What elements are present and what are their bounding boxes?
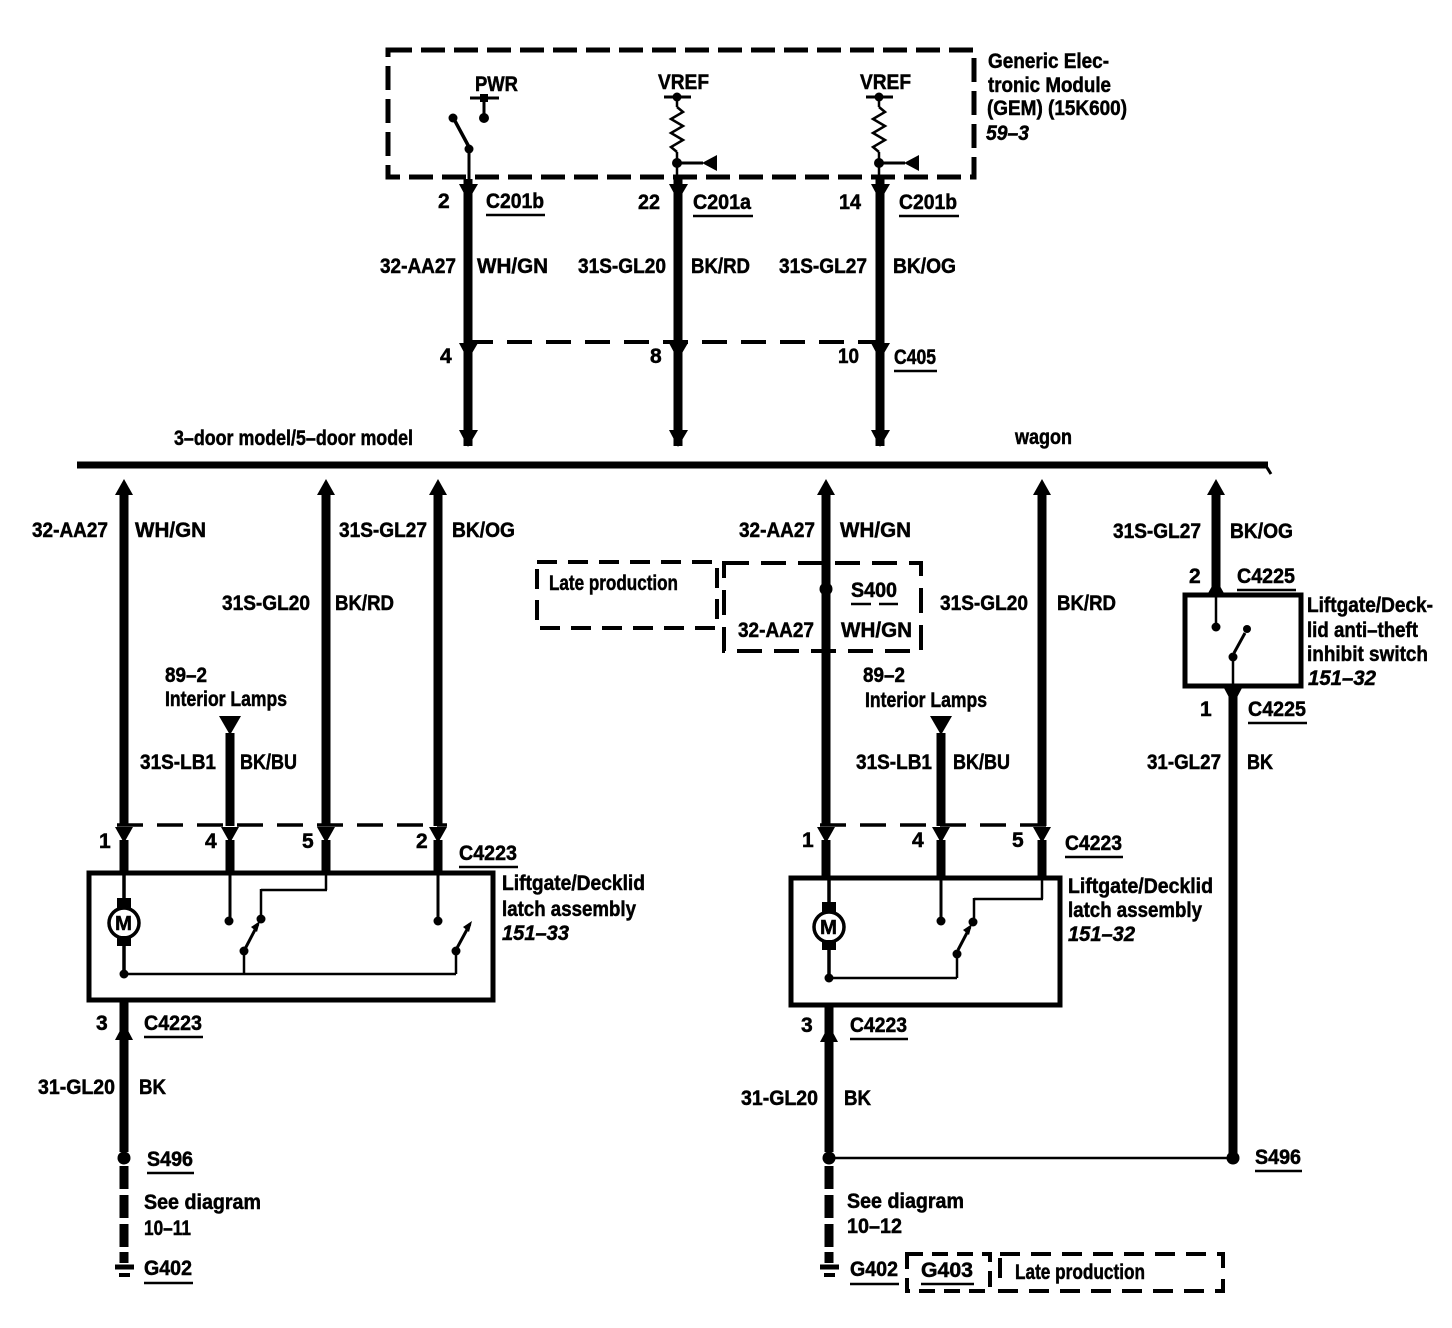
svg-text:151–33: 151–33	[502, 922, 569, 945]
wire 32-AA27 right drop from bus	[817, 479, 835, 826]
wire 31S-GL27 right drop from bus to switch	[1207, 479, 1225, 595]
splice S496 right network	[823, 1146, 1303, 1171]
wire 31S-GL27 from GEM pin 14 down to C405 and bus	[871, 179, 890, 447]
svg-text:BK/BU: BK/BU	[240, 751, 297, 774]
connector C4223 right dashed row	[802, 825, 1123, 857]
wire 31-GL27 from switch pin 1 down	[1224, 688, 1242, 1155]
svg-text:89–2: 89–2	[165, 664, 207, 687]
svg-text:C4223: C4223	[850, 1014, 907, 1037]
svg-text:151–32: 151–32	[1068, 923, 1135, 946]
label 31S-GL27 BK/OG right	[1113, 520, 1293, 543]
svg-text:32-AA27: 32-AA27	[32, 519, 108, 542]
svg-text:10: 10	[838, 345, 859, 368]
svg-text:Liftgate/Deck-: Liftgate/Deck-	[1307, 594, 1433, 617]
node pin 4 contact right	[937, 880, 946, 926]
wire stubs into right latch box	[826, 840, 1042, 880]
switch latch ajar right	[953, 880, 1044, 978]
label see diagram left	[144, 1191, 261, 1240]
label 31S-GL20 BK/RD right	[940, 592, 1116, 615]
wire 32-AA27 from GEM pin 2 down to C405 and bus	[459, 179, 478, 447]
label anti-theft switch name	[1307, 594, 1433, 690]
svg-text:59–3: 59–3	[986, 122, 1029, 145]
svg-text:1: 1	[1200, 698, 1212, 721]
svg-text:S496: S496	[147, 1148, 193, 1171]
note dashed box Late production bottom	[1000, 1254, 1223, 1291]
connector C4225 pin 1 labels	[1200, 698, 1307, 723]
svg-text:2: 2	[1189, 565, 1201, 588]
label 31S-LB1 BK/BU right	[856, 751, 1010, 774]
label GEM module name	[986, 50, 1127, 145]
svg-text:BK: BK	[1247, 751, 1273, 774]
label see diagram right	[847, 1190, 964, 1238]
svg-text:C4223: C4223	[1065, 832, 1122, 855]
switch inside GEM on pin 2	[449, 114, 474, 180]
svg-text:4: 4	[912, 829, 924, 852]
ground G402 right	[820, 1252, 899, 1284]
wire pin 3 exit left	[115, 1000, 133, 1152]
note dashed box Late production middle	[537, 562, 717, 628]
svg-text:BK/RD: BK/RD	[691, 255, 750, 278]
label latch assembly right	[1068, 875, 1213, 946]
svg-text:inhibit switch: inhibit switch	[1307, 643, 1428, 666]
svg-text:BK/RD: BK/RD	[335, 592, 394, 615]
svg-text:G402: G402	[144, 1257, 192, 1280]
svg-text:Interior Lamps: Interior Lamps	[865, 689, 987, 712]
svg-text:WH/GN: WH/GN	[840, 519, 911, 542]
svg-text:Interior Lamps: Interior Lamps	[165, 688, 287, 711]
label wire names top row	[380, 255, 956, 278]
component liftgate latch assembly box left	[89, 873, 493, 1000]
svg-text:151–32: 151–32	[1308, 667, 1376, 690]
svg-text:3–door model/5–door model: 3–door model/5–door model	[174, 427, 413, 450]
wire stubs into left latch box	[124, 840, 438, 875]
svg-text:Liftgate/Decklid: Liftgate/Decklid	[502, 872, 645, 895]
switch latch release left	[434, 875, 473, 974]
wire internal return bus left	[124, 973, 456, 976]
svg-text:32-AA27: 32-AA27	[380, 255, 456, 278]
motor M2 right	[814, 880, 844, 978]
svg-text:31S-GL20: 31S-GL20	[222, 592, 310, 615]
label 31-GL20 BK right	[741, 1087, 871, 1110]
bus wire horizontal	[77, 462, 1268, 469]
svg-text:BK/OG: BK/OG	[893, 255, 956, 278]
svg-text:31S-GL27: 31S-GL27	[1113, 520, 1201, 543]
svg-text:C201b: C201b	[899, 191, 957, 214]
switch latch ajar left	[240, 875, 328, 974]
svg-text:tronic Module: tronic Module	[988, 74, 1111, 97]
svg-text:22: 22	[638, 191, 660, 214]
node junction and arrow tap 1	[672, 155, 717, 171]
svg-text:8: 8	[650, 345, 662, 368]
node motor return junction right	[825, 974, 834, 983]
label 31S-GL20 BK/RD left	[222, 592, 394, 615]
svg-text:C4225: C4225	[1237, 565, 1295, 588]
svg-text:3: 3	[801, 1014, 813, 1037]
splice S400 dashed box	[724, 563, 921, 651]
svg-text:latch assembly: latch assembly	[1068, 899, 1202, 922]
svg-text:4: 4	[205, 830, 217, 853]
svg-text:See diagram: See diagram	[847, 1190, 964, 1213]
svg-text:31-GL20: 31-GL20	[741, 1087, 818, 1110]
connector C4223 pin 3 labels right	[801, 1014, 908, 1039]
node interior lamps feed right	[863, 664, 987, 826]
connector C4223 left dashed row	[99, 825, 518, 867]
motor M1 left	[109, 875, 139, 974]
label 32-AA27 WH/GN right	[739, 519, 911, 542]
svg-text:BK/RD: BK/RD	[1057, 592, 1116, 615]
connector C405 inline dashed	[440, 342, 937, 371]
svg-text:10–12: 10–12	[847, 1215, 902, 1238]
component liftgate latch assembly box right	[791, 878, 1060, 1005]
wire 31S-GL20 left drop from bus	[317, 479, 335, 826]
svg-text:Liftgate/Decklid: Liftgate/Decklid	[1068, 875, 1213, 898]
svg-text:C201b: C201b	[486, 190, 544, 213]
svg-text:VREF: VREF	[860, 71, 911, 94]
label 32-AA27 WH/GN left	[32, 519, 206, 542]
ground G402 left	[115, 1252, 193, 1283]
svg-text:3: 3	[96, 1012, 108, 1035]
svg-text:PWR: PWR	[475, 73, 518, 96]
svg-text:M: M	[115, 913, 132, 935]
svg-text:lid anti–theft: lid anti–theft	[1307, 619, 1418, 642]
svg-text:31-GL27: 31-GL27	[1147, 751, 1221, 774]
svg-text:BK/BU: BK/BU	[953, 751, 1010, 774]
splice S496 left	[118, 1148, 195, 1173]
switch anti-theft contacts	[1212, 597, 1252, 686]
node junction and arrow tap 2	[874, 155, 919, 171]
svg-text:31S-LB1: 31S-LB1	[856, 751, 932, 774]
svg-text:Late production: Late production	[549, 572, 678, 595]
svg-text:M: M	[820, 917, 837, 939]
label 31S-GL27 BK/OG left	[339, 519, 515, 542]
svg-text:Generic Elec-: Generic Elec-	[988, 50, 1109, 73]
node pin 4 contact left	[225, 875, 234, 926]
svg-text:31S-GL27: 31S-GL27	[339, 519, 427, 542]
svg-text:31S-LB1: 31S-LB1	[140, 751, 216, 774]
svg-text:1: 1	[99, 830, 111, 853]
component anti-theft inhibit switch box	[1185, 595, 1301, 686]
svg-text:1: 1	[802, 829, 814, 852]
svg-text:latch assembly: latch assembly	[502, 898, 636, 921]
module U1 Generic Electronic Module GEM dashed box	[388, 50, 974, 177]
svg-text:C201a: C201a	[693, 191, 751, 214]
resistor R2 VREF pull-up inside GEM	[860, 71, 911, 179]
svg-text:32-AA27: 32-AA27	[738, 619, 814, 642]
svg-text:WH/GN: WH/GN	[135, 519, 206, 542]
label 31S-LB1 BK/BU left	[140, 751, 297, 774]
node PWR terminal	[470, 73, 518, 123]
connector C4225 pin 2 labels	[1189, 565, 1296, 590]
label latch assembly left	[502, 872, 645, 945]
svg-text:G403: G403	[921, 1259, 973, 1282]
connector C201a pin 22 labels	[638, 191, 753, 216]
connector C201b pin 14 labels	[839, 191, 959, 216]
svg-text:Late production: Late production	[1015, 1261, 1145, 1284]
svg-text:4: 4	[440, 345, 452, 368]
svg-text:14: 14	[839, 191, 861, 214]
svg-text:WH/GN: WH/GN	[841, 619, 912, 642]
resistor R1 VREF pull-up inside GEM	[658, 71, 709, 179]
svg-text:(GEM) (15K600): (GEM) (15K600)	[987, 97, 1127, 120]
svg-text:See diagram: See diagram	[144, 1191, 261, 1214]
connector C201b pin 2 labels	[438, 190, 545, 215]
svg-text:S496: S496	[1255, 1146, 1301, 1169]
svg-text:5: 5	[1012, 829, 1024, 852]
svg-text:wagon: wagon	[1014, 426, 1072, 449]
node motor return junction left	[120, 970, 129, 979]
svg-text:VREF: VREF	[658, 71, 709, 94]
svg-text:C4223: C4223	[144, 1012, 202, 1035]
wire dashed to ground left	[120, 1166, 129, 1250]
wire 32-AA27 left drop from bus	[115, 479, 133, 826]
svg-text:31S-GL27: 31S-GL27	[779, 255, 867, 278]
svg-text:10–11: 10–11	[144, 1217, 191, 1240]
node interior lamps feed left	[165, 664, 287, 826]
ground G403 alternate dashed box	[907, 1254, 990, 1291]
label 31-GL20 BK left	[38, 1076, 166, 1099]
svg-text:BK: BK	[844, 1087, 871, 1110]
svg-text:C405: C405	[894, 346, 936, 369]
node splice dot S400	[820, 583, 833, 596]
wire 31S-GL20 right drop from bus	[1033, 479, 1051, 826]
wire 31S-GL20 from GEM pin 22 down to C405 and bus	[669, 179, 688, 447]
svg-text:BK/OG: BK/OG	[452, 519, 515, 542]
svg-text:S400: S400	[851, 579, 897, 602]
svg-text:89–2: 89–2	[863, 664, 905, 687]
svg-text:2: 2	[416, 830, 428, 853]
svg-text:WH/GN: WH/GN	[477, 255, 548, 278]
wire 31S-GL27 left drop from bus	[429, 479, 447, 826]
svg-text:5: 5	[302, 830, 314, 853]
svg-text:BK: BK	[139, 1076, 166, 1099]
connector C4223 pin 3 labels left	[96, 1012, 203, 1037]
svg-text:32-AA27: 32-AA27	[739, 519, 815, 542]
svg-text:BK/OG: BK/OG	[1230, 520, 1293, 543]
wire internal return right	[829, 977, 957, 980]
svg-text:31S-GL20: 31S-GL20	[578, 255, 666, 278]
wire dashed to ground right	[825, 1166, 834, 1250]
svg-text:C4225: C4225	[1248, 698, 1306, 721]
wire pin 3 exit right	[820, 1005, 838, 1152]
svg-text:2: 2	[438, 190, 450, 213]
label 31-GL27 BK	[1147, 751, 1273, 774]
svg-text:31-GL20: 31-GL20	[38, 1076, 115, 1099]
svg-text:G402: G402	[850, 1258, 898, 1281]
svg-text:31S-GL20: 31S-GL20	[940, 592, 1028, 615]
svg-text:C4223: C4223	[459, 842, 517, 865]
